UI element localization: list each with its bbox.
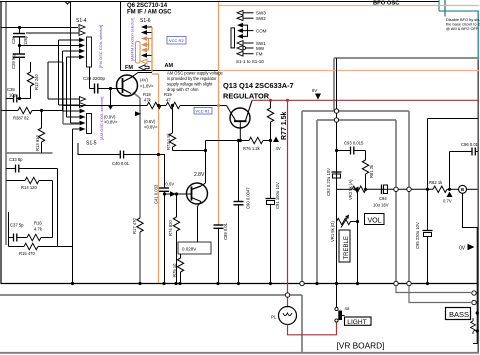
wire gray top-right vertical [333, 58, 335, 111]
node j450-189 [448, 188, 451, 191]
label VCC R1 box [194, 108, 212, 115]
wire BFO teal bottom [439, 10, 479, 12]
svg-text:C26: C26 [11, 36, 16, 44]
transistor Q6 [117, 73, 139, 97]
svg-text:AM: AM [165, 63, 174, 69]
wire coil bundle [48, 2, 80, 284]
svg-text:6V: 6V [312, 88, 317, 93]
switch S1-5 [59, 97, 105, 147]
resistor R18 [143, 92, 161, 109]
svg-text:R14 120: R14 120 [21, 185, 38, 190]
svg-text:S1-1 to S1-10: S1-1 to S1-10 [236, 59, 264, 64]
wire inner gray bus top [317, 119, 396, 121]
svg-text:S8: S8 [345, 306, 351, 311]
wire gray top-right horizontal [334, 57, 478, 59]
label blue note AM OSC [167, 71, 223, 93]
node FM arrow [139, 65, 149, 70]
resistor R387 [1, 107, 63, 120]
node j110-88 [109, 87, 112, 90]
svg-text:(0.6V): (0.6V) [144, 119, 156, 124]
wire gray link bass 2 [409, 286, 471, 303]
switch S1 common [231, 10, 267, 64]
node hop c410-189 [407, 187, 411, 191]
transistor Q13 [227, 101, 253, 141]
svg-text:C41 0.033: C41 0.033 [154, 184, 159, 204]
wire Q14 base [165, 193, 171, 195]
svg-text:@ AM & BFO OFF: @ AM & BFO OFF [446, 26, 479, 31]
capacitor C38 [6, 87, 31, 103]
wire to Q13 base [180, 105, 227, 107]
svg-text:4.7k: 4.7k [34, 227, 43, 232]
svg-text:R15 470: R15 470 [19, 251, 36, 256]
svg-text:R18: R18 [143, 92, 151, 97]
resistor R17 [132, 217, 143, 234]
svg-text:[AM/FM function selector]: [AM/FM function selector] [131, 18, 135, 61]
node testpoint arrow [108, 106, 113, 110]
svg-text:C95 220u 10V: C95 220u 10V [415, 222, 420, 249]
resistor R77 [267, 100, 288, 140]
svg-text:Q13 Q14 2SC633A-7: Q13 Q14 2SC633A-7 [223, 81, 294, 90]
svg-text:0.7V: 0.7V [443, 199, 452, 204]
wire BFO teal left [438, 0, 440, 11]
node bass pins [476, 311, 479, 314]
svg-text:C33 8p: C33 8p [9, 157, 23, 162]
wire top border [0, 1, 439, 3]
wire red lamp return [288, 322, 337, 335]
svg-text:VR1 5k (D): VR1 5k (D) [330, 221, 335, 242]
node connector c474-302 [472, 300, 476, 304]
node red j287 [286, 99, 289, 102]
node j427-189 [426, 188, 429, 191]
svg-text:0V: 0V [459, 246, 466, 252]
capacitor C93 [337, 141, 366, 155]
wire Q14 collector [173, 150, 206, 152]
capacitor C95 [415, 119, 433, 284]
svg-text:C91 100u 10V: C91 100u 10V [275, 182, 280, 209]
wire gray bus v63 [62, 62, 64, 124]
label VCC R2 box [167, 37, 186, 45]
svg-text:R16: R16 [34, 221, 42, 226]
node j72-283 [71, 282, 74, 285]
svg-text:R74 820: R74 820 [168, 219, 173, 236]
wire VR board gray bottom [0, 352, 479, 354]
capacitor C89 [214, 222, 229, 283]
capacitor C37 [9, 223, 28, 242]
svg-text:PL: PL [271, 315, 277, 320]
wire AM OSC orange vertical [158, 74, 160, 284]
node bus dots [138, 282, 429, 285]
label blue note BFO [446, 17, 480, 31]
potentiometer VR3 [471, 318, 476, 334]
svg-text:R75 10: R75 10 [172, 263, 177, 277]
svg-text:<0.8V>: <0.8V> [104, 120, 118, 125]
capacitor C91 [266, 141, 281, 284]
wire Q6 section box left [120, 2, 122, 71]
capacitor C92 [326, 168, 342, 196]
svg-text:R82 1k: R82 1k [429, 180, 443, 185]
wire VCC orange top rail [218, 5, 479, 7]
svg-text:R387 82: R387 82 [13, 116, 30, 121]
capacitor C40 [78, 143, 158, 166]
node j158-105 [157, 104, 160, 107]
svg-text:AM OSC power supply voltage: AM OSC power supply voltage [167, 71, 223, 76]
label VOL box [365, 214, 385, 225]
wire VCC R1 line [63, 105, 147, 107]
svg-text:supply voltage with slight: supply voltage with slight [167, 82, 213, 87]
label TREBLE box [339, 230, 350, 262]
node j270-140 [269, 139, 272, 142]
node top notch [65, 2, 70, 5]
wire h27 [1, 27, 78, 29]
wire tank right vertical [52, 181, 54, 238]
svg-text:[FM OSC COIL selector]: [FM OSC COIL selector] [98, 25, 103, 68]
svg-text:R12 240: R12 240 [34, 73, 39, 90]
wire gray bus left edge [5, 2, 7, 245]
resistor R82 [429, 180, 478, 193]
capacitor C26 [11, 28, 28, 46]
node j158-154 [157, 153, 160, 156]
capacitor C41 [154, 155, 170, 284]
svg-text:VCC R2: VCC R2 [169, 38, 184, 43]
node j19-27 [18, 26, 21, 29]
svg-text:MW: MW [256, 46, 265, 51]
svg-text:C93 0.015: C93 0.015 [344, 141, 364, 146]
node hop c336-120 [334, 118, 338, 122]
switch S8 [335, 284, 350, 323]
wire Q6 section box bottom [121, 70, 219, 72]
svg-text:TREBLE: TREBLE [344, 236, 350, 259]
svg-text:REGULATOR: REGULATOR [223, 92, 270, 101]
node j164-194 [163, 192, 166, 195]
svg-text:C40 0.01: C40 0.01 [112, 161, 130, 166]
label LIGHT box [345, 317, 372, 326]
svg-text:VCC R1: VCC R1 [196, 110, 210, 114]
resistor R74 [168, 192, 180, 283]
wire audio line [366, 188, 433, 190]
wire gray bus h124 [63, 123, 79, 125]
svg-text:BASS: BASS [449, 310, 469, 319]
resistor R13 [35, 109, 45, 153]
wire gray bus v140 [139, 98, 141, 218]
svg-text:COM: COM [256, 29, 267, 34]
label BASS box [446, 308, 471, 320]
node j365-189 [364, 188, 367, 191]
capacitor C96 [450, 142, 479, 189]
node j19-45 [18, 44, 21, 47]
node connector c474-293 [472, 291, 476, 295]
wire right border [477, 60, 479, 353]
svg-text:126p: 126p [23, 35, 28, 45]
svg-text:VOL: VOL [368, 218, 382, 225]
node orange j218-105 [217, 104, 220, 107]
svg-text:SW2: SW2 [256, 16, 266, 21]
lamp PL [271, 307, 297, 325]
svg-text:R13 910: R13 910 [35, 134, 40, 151]
transistor Q14 [187, 183, 208, 207]
node j336-150 [335, 149, 338, 152]
svg-text:10u 16V: 10u 16V [373, 203, 389, 208]
wire inner gray bus left [316, 120, 318, 284]
wire outer gray bus right [408, 111, 410, 284]
node 4V testpoint [273, 137, 279, 143]
resistor R75 [172, 254, 184, 284]
resistor R73 [166, 106, 176, 151]
svg-text:C38: C38 [7, 87, 15, 92]
svg-text:0.028V: 0.028V [182, 247, 196, 252]
svg-text:C96 0.01: C96 0.01 [461, 142, 479, 147]
wire gray bus h62 [48, 61, 63, 63]
svg-text:C89 0.01: C89 0.01 [223, 222, 228, 240]
wire inner gray bus right [395, 120, 397, 284]
wire ground bus [1, 283, 477, 285]
node j238-140 [237, 139, 240, 142]
svg-text:C92 0.22u 10V: C92 0.22u 10V [326, 168, 331, 196]
wire right vertical to bass [473, 228, 477, 344]
svg-text:C29 91p: C29 91p [11, 52, 16, 69]
resistor R12 [27, 62, 39, 99]
wire right border teal top [477, 11, 479, 60]
svg-text:BFO OSC: BFO OSC [373, 1, 400, 7]
capacitor C39 [83, 67, 121, 94]
switch S1-4 [26, 18, 103, 68]
svg-text:(4V): (4V) [140, 78, 149, 83]
node red j270 [269, 99, 272, 102]
svg-text:C39 2200p: C39 2200p [83, 76, 106, 81]
node j240-140 [239, 139, 242, 142]
svg-text:S1-4: S1-4 [76, 18, 87, 24]
svg-text:drop with 47 ohm: drop with 47 ohm [167, 87, 199, 92]
capacitor C90 [234, 141, 251, 284]
label 0.028V box [178, 242, 211, 254]
wire headphone jack top [428, 118, 479, 120]
svg-text:[VR BOARD]: [VR BOARD] [337, 341, 385, 351]
wire S1-4 feeds [59, 40, 80, 57]
svg-text:LIGHT: LIGHT [347, 319, 366, 326]
wire v357 [357, 192, 359, 284]
resistor R76 [206, 137, 271, 151]
svg-text:VR2 5k (A): VR2 5k (A) [348, 179, 353, 200]
switch S1-6 [131, 18, 159, 74]
svg-text:FM IF / AM OSC: FM IF / AM OSC [127, 10, 172, 16]
wire r18-r19 [157, 105, 166, 107]
node connector B [459, 185, 467, 193]
wire BFO base shunt [444, 0, 446, 17]
svg-text:SW3: SW3 [256, 11, 266, 16]
node connector c288-295 [285, 293, 289, 297]
wire outer gray bus top [302, 110, 409, 112]
wire left border [0, 2, 2, 285]
capacitor C94 [373, 185, 389, 208]
node bus connector circles [300, 281, 304, 285]
svg-text:R17 470: R17 470 [132, 217, 137, 234]
wire red lamp feed [287, 100, 289, 307]
node hop c396-189 [394, 187, 398, 191]
svg-text:10p: 10p [9, 93, 17, 98]
wire regulated 6V rail dark red [252, 99, 479, 101]
svg-text:FM: FM [256, 52, 263, 57]
node q6 bias arrow [135, 111, 141, 116]
svg-text:Q6 2SC710-14: Q6 2SC710-14 [127, 3, 168, 9]
svg-text:C94: C94 [379, 196, 387, 201]
potentiometer VR2 [336, 179, 366, 200]
svg-text:4V: 4V [276, 146, 281, 151]
wire VR board gray right [301, 111, 303, 282]
svg-text:R81 2k: R81 2k [369, 164, 374, 178]
svg-text:S1-6: S1-6 [140, 18, 151, 24]
wire gray link bass 1 [396, 286, 471, 293]
svg-text:FM: FM [125, 65, 133, 71]
wire gray bus h153 [6, 152, 53, 154]
node j19-98 [18, 97, 21, 100]
capacitor C33 [6, 157, 58, 247]
resistor R19 [164, 92, 180, 109]
wire bfo black vertical [336, 58, 338, 284]
resistor R14 [6, 177, 53, 190]
wire Q14 emitter [197, 207, 199, 242]
wire VCC R2 rail orange [218, 70, 479, 72]
svg-text:C37 5p: C37 5p [10, 223, 24, 228]
resistor R81 [362, 151, 374, 190]
wire h45 [20, 45, 80, 47]
wire gray emitter diagonal [133, 93, 140, 99]
wire VR board gray top [0, 294, 302, 296]
node hop c336-111 [334, 109, 338, 113]
svg-text:C90 0.0047: C90 0.0047 [246, 187, 251, 209]
wire VCC R2 vertical orange [218, 2, 220, 225]
svg-text:R76 1.2k: R76 1.2k [243, 146, 261, 151]
svg-text:<0.8V>: <0.8V> [144, 125, 158, 130]
svg-text:R73 1.5k: R73 1.5k [166, 132, 171, 150]
svg-text:2.8V: 2.8V [194, 172, 205, 178]
svg-text:0.6V: 0.6V [166, 182, 175, 187]
svg-text:R19: R19 [164, 92, 172, 97]
resistor R15 [9, 243, 73, 256]
wire tank left bracket [8, 212, 10, 247]
wire v110 testpoint [110, 89, 112, 106]
potentiometer VR1 [330, 215, 359, 243]
svg-text:47: 47 [166, 98, 171, 103]
svg-text:47k: 47k [144, 98, 152, 103]
resistor R16 [27, 221, 53, 241]
capacitor C29 [11, 46, 25, 99]
node 0.7V testpoint [447, 192, 453, 198]
svg-text:<1.8V>: <1.8V> [140, 84, 154, 89]
svg-text:S1-5: S1-5 [86, 141, 97, 147]
node j172-105 [171, 104, 174, 107]
wire from connector B [463, 193, 479, 227]
svg-text:is provided by the regulator: is provided by the regulator [167, 76, 217, 81]
